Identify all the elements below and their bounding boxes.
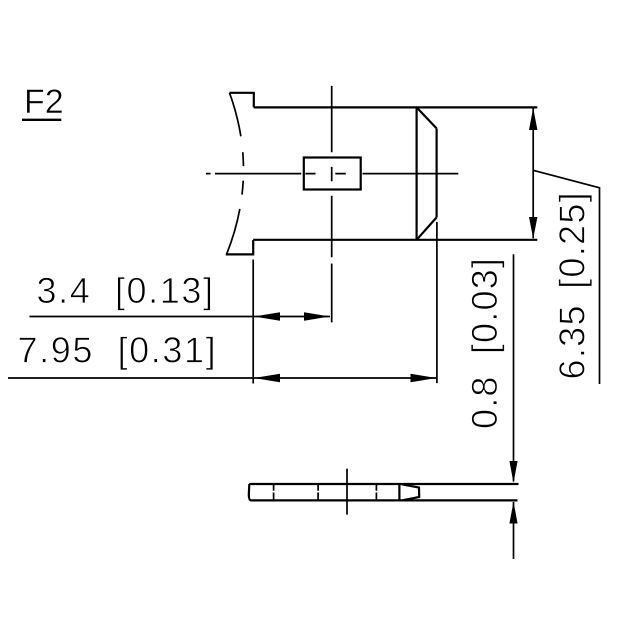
arrowhead 6.35 down — [529, 217, 537, 239]
svg-text:6.35 [0.25]: 6.35 [0.25] — [552, 191, 593, 379]
top view: tip fold line (left edge of chamfer trapezoid) — [416, 107, 418, 239]
dimension line 0.8 lower segment — [513, 502, 515, 559]
svg-text:0.8 [0.03]: 0.8 [0.03] — [464, 257, 505, 429]
top view: upper-left step — [230, 93, 254, 108]
top view: lower-left step — [226, 240, 253, 254]
label F2 underline — [22, 119, 61, 121]
dimension line 3.4 — [30, 316, 331, 318]
side view: bottom edge (extends right as extension line for 0.8) — [251, 499, 518, 501]
dimension line 7.95 — [8, 377, 437, 379]
top view: tip chamfer top diagonal — [417, 107, 437, 128]
top view: hole rectangle — [304, 158, 361, 190]
svg-text:F2: F2 — [24, 83, 64, 121]
extension line from left step corner — [252, 260, 254, 384]
side view: bend tick 1 — [273, 484, 275, 500]
top view: top edge (extends right as extension line for 6.35) — [254, 106, 538, 108]
leader 6.35 — [533, 170, 599, 384]
arrowhead 6.35 up — [529, 108, 537, 130]
top view: vertical centerline through hole — [331, 86, 333, 323]
side view: bend tick 2 — [317, 484, 319, 500]
top view: tip chamfer bottom diagonal — [417, 217, 437, 239]
arrowhead 7.95 left — [254, 374, 280, 383]
side view: centerline — [346, 469, 348, 515]
side view: top edge (extends right as extension line for 0.8) — [249, 483, 518, 485]
top view: horizontal centerline — [206, 173, 458, 175]
side view: bend tick 3 — [375, 484, 377, 500]
arrowhead 0.8 down — [509, 461, 517, 483]
side view: tip base line — [398, 484, 400, 501]
extension line from tab tip — [436, 222, 438, 383]
side view: left end — [249, 484, 251, 500]
top view: bottom edge (extends right as extension line for 6.35) — [253, 239, 537, 241]
top view: break arc (left broken edge) — [227, 93, 244, 255]
arrowhead 0.8 up — [509, 502, 517, 524]
dimension line 0.8 upper segment — [513, 254, 515, 481]
arrowhead 3.4 left — [254, 312, 280, 321]
svg-text:3.4 [0.13]: 3.4 [0.13] — [37, 270, 215, 311]
arrowhead 7.95 right — [411, 374, 437, 383]
arrowhead 3.4 right — [304, 312, 330, 321]
dimension line 6.35 (vertical, right of top view) — [532, 109, 534, 239]
svg-text:7.95 [0.31]: 7.95 [0.31] — [18, 330, 218, 371]
top view: tip right edge — [436, 128, 438, 217]
side view: tip chamfer outline — [402, 484, 419, 500]
